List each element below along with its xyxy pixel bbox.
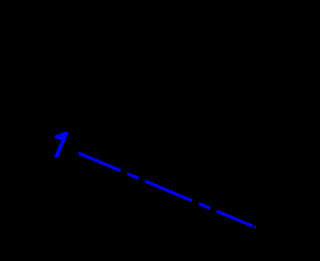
plot area (black) — [0, 0, 256, 256]
curve 1 : blue dash-dot line — [79, 153, 256, 227]
label 1 (italic blue numeral) — [54, 132, 69, 158]
